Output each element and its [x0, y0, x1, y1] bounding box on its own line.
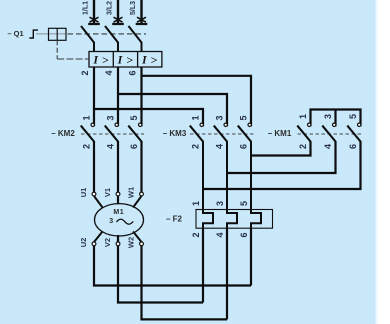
- wire KM1 pin 6 to KM3-F2 node: [203, 141, 361, 189]
- wire KM1 pin 4 to KM3-F2 node: [227, 141, 336, 173]
- wire W2 stub: [133, 232, 142, 243]
- svg-text:V1: V1: [103, 188, 112, 197]
- KM2 pole 2 fixed contact circle: [115, 123, 118, 126]
- KM1 pole 3 contact blade: [347, 126, 360, 142]
- wire Q1 pin 6 down to KM2 pole 3: [140, 67, 142, 126]
- motor terminal U1: [92, 192, 96, 196]
- svg-text:1: 1: [191, 115, 201, 120]
- wire branch phase L2 to KM3 pin 3: [118, 94, 227, 126]
- wire U2 to F2 pin 6: [94, 246, 251, 286]
- wire V1 stub: [117, 196, 119, 204]
- KM2 pole 2 contact blade: [105, 126, 118, 142]
- Q1 manual operator lever: [29, 30, 38, 38]
- svg-text:6: 6: [128, 70, 138, 75]
- Q1 pole 2 fixed contact: [114, 17, 123, 22]
- svg-text:W1: W1: [127, 187, 136, 198]
- wire Q1 pin 4 down to KM2 pole 2: [117, 67, 119, 126]
- wire branch phase L3 to KM3 pin 5: [142, 76, 252, 127]
- svg-text:1: 1: [82, 115, 92, 120]
- supply line 1/L1: [93, 0, 95, 23]
- wire KM2 pin 4 to motor terminal: [117, 141, 119, 192]
- motor terminal U2: [92, 242, 96, 246]
- KM3 pole 3 contact blade: [238, 126, 251, 142]
- Q1 pole 3 moving contact blade: [129, 26, 142, 52]
- svg-text:1: 1: [298, 114, 308, 119]
- svg-text:– KM2: – KM2: [51, 129, 75, 138]
- svg-text:3: 3: [323, 114, 333, 119]
- motor terminal V1: [116, 192, 120, 196]
- wire KM1 pin 2 to KM3-F2 node: [251, 141, 311, 156]
- svg-text:4: 4: [104, 70, 114, 75]
- KM2 pole 3 fixed contact circle: [139, 123, 142, 126]
- svg-text:– KM1: – KM1: [268, 129, 292, 138]
- KM3 mechanical linkage dashed line: [190, 133, 254, 135]
- wire W1 stub: [133, 196, 142, 208]
- svg-text:1/L1: 1/L1: [83, 1, 90, 15]
- svg-text:4: 4: [215, 144, 225, 149]
- svg-text:3/L2: 3/L2: [107, 1, 114, 15]
- Q1 dashed link to trip units: [57, 58, 89, 60]
- svg-text:5: 5: [239, 115, 249, 120]
- Q1 pole 3 fixed contact: [137, 17, 146, 22]
- svg-text:2: 2: [191, 232, 201, 237]
- svg-text:3: 3: [215, 201, 225, 206]
- wire W2 to F2 pin 4: [142, 246, 228, 320]
- svg-text:3: 3: [106, 115, 116, 120]
- svg-text:M1: M1: [113, 209, 124, 216]
- KM2 pole 3 contact blade: [128, 126, 141, 142]
- motor AC tilde symbol: [116, 219, 133, 224]
- wire F2 pin 6 down: [250, 228, 252, 285]
- motor terminal V2: [116, 242, 120, 246]
- Q1 linkage dashed line to poles: [68, 33, 147, 35]
- supply line 5/L3: [140, 0, 142, 23]
- KM1 pole 1 fixed contact circle: [308, 123, 311, 126]
- svg-text:2: 2: [80, 70, 90, 75]
- svg-text:4: 4: [106, 144, 116, 149]
- KM2 pole 1 fixed contact circle: [91, 123, 94, 126]
- Q1 pole 1 fixed contact: [90, 17, 99, 22]
- svg-text:6: 6: [129, 144, 139, 149]
- svg-text:5: 5: [239, 201, 249, 206]
- wire branch phase L1 to KM3 pin 1: [94, 109, 203, 126]
- svg-text:U1: U1: [79, 188, 88, 198]
- wire KM2 pin 6 to motor terminal: [140, 141, 142, 192]
- Q1 pole 2 moving contact blade: [105, 26, 118, 52]
- svg-text:– F2: – F2: [166, 214, 183, 223]
- Q1 trip mechanism box: [49, 28, 67, 40]
- wire U2 stub: [94, 232, 103, 243]
- motor terminal W1: [140, 192, 144, 196]
- F2 heater element phase 2 with feed wire: [227, 141, 237, 228]
- svg-text:6: 6: [239, 232, 249, 237]
- svg-text:>: >: [150, 53, 157, 67]
- wire KM2 pin 2 to motor terminal: [93, 141, 95, 192]
- KM3 pole 2 contact blade: [214, 126, 227, 142]
- KM1 star-point bus with end stubs: [311, 110, 361, 127]
- svg-text:V2: V2: [103, 238, 112, 247]
- svg-text:5: 5: [348, 114, 358, 119]
- svg-text:– Q1: – Q1: [7, 29, 23, 38]
- wire F2 pin 4 down: [226, 228, 228, 319]
- KM3 pole 3 fixed contact circle: [248, 123, 251, 126]
- F2 relay outline box: [196, 210, 273, 229]
- svg-text:U2: U2: [79, 238, 88, 248]
- svg-text:2: 2: [298, 144, 308, 149]
- svg-text:W2: W2: [127, 237, 136, 248]
- KM1 pole 2 fixed contact circle: [333, 123, 336, 126]
- svg-text:5: 5: [129, 115, 139, 120]
- KM2 pole 1 contact blade: [81, 126, 94, 142]
- svg-text:3: 3: [215, 115, 225, 120]
- svg-text:6: 6: [239, 144, 249, 149]
- wire U1 stub: [94, 196, 103, 208]
- KM3 pole 1 fixed contact circle: [200, 123, 203, 126]
- KM3 pole 1 contact blade: [190, 126, 203, 142]
- KM3 pole 2 fixed contact circle: [224, 123, 227, 126]
- F2 heater element phase 3 with feed wire: [251, 141, 261, 228]
- wire F2 pin 2 down: [202, 228, 204, 302]
- svg-text:5/L3: 5/L3: [130, 1, 137, 15]
- svg-text:1: 1: [191, 201, 201, 206]
- KM2 mechanical linkage dashed line: [81, 133, 144, 135]
- svg-text:4: 4: [215, 232, 225, 237]
- svg-text:– KM3: – KM3: [163, 129, 187, 138]
- F2 heater element phase 1 with feed wire: [203, 141, 213, 228]
- wire KM1 bus stub pole 2: [334, 110, 336, 127]
- svg-text:4: 4: [323, 144, 333, 149]
- KM1 pole 3 fixed contact circle: [358, 123, 361, 126]
- svg-text:6: 6: [348, 144, 358, 149]
- KM1 mechanical linkage dashed line: [298, 133, 364, 135]
- KM1 pole 2 contact blade: [322, 126, 335, 142]
- motor terminal W2: [140, 242, 144, 246]
- supply line 3/L2: [117, 0, 119, 23]
- Q1 dashed link down: [56, 40, 58, 59]
- wire Q1 pin 2 down to KM2 pole 1: [93, 67, 95, 126]
- svg-text:3: 3: [109, 218, 113, 225]
- svg-text:2: 2: [191, 144, 201, 149]
- Q1 overcurrent trip units I>: [89, 52, 162, 68]
- svg-text:2: 2: [82, 144, 92, 149]
- Q1 pole 1 moving contact blade: [81, 26, 94, 52]
- wire V2 stub: [117, 235, 119, 242]
- svg-text:>: >: [126, 53, 133, 67]
- KM1 pole 1 contact blade: [297, 126, 310, 142]
- Q1 operator link line: [36, 33, 66, 35]
- wire V2 to F2 pin 2: [118, 246, 203, 303]
- svg-text:>: >: [102, 53, 109, 67]
- motor M1 stator circle: [95, 204, 144, 236]
